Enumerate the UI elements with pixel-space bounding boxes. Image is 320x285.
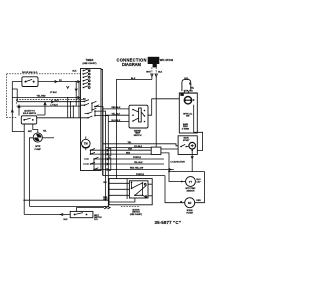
noise filter circle [185,198,195,208]
junction dot circle1 [181,181,183,183]
motor lead down with connectors [191,149,193,172]
label WTR TEMP SENSOR [186,188,197,192]
water temp switch mechanism [132,108,145,122]
belt switch S4 box [70,211,93,217]
wire VIO bus to connector [106,147,152,149]
timer contact row 6 [83,86,91,89]
belt switch label [94,215,102,221]
wire unbalance left terminal down [23,124,25,200]
wire RED bus [101,153,151,155]
svg-text:RED-YELLOW: RED-YELLOW [130,168,143,170]
svg-text:(SEE CHART): (SEE CHART) [83,62,97,65]
motor switch label [130,209,142,216]
wire YEL bus to motor [103,144,179,146]
svg-text:PUMP: PUMP [35,149,42,151]
timer mid contact group [81,100,102,119]
mid vertical bus 2 [105,115,107,200]
wire pump right stub [43,137,54,139]
connector on PK wire [55,80,58,83]
connector bracket upper [107,148,111,156]
timer contact row 5 [83,83,91,86]
wire neutral vertical [155,77,157,147]
svg-text:YEL-BLK: YEL-BLK [134,162,143,164]
timer motor TM [82,137,91,151]
label NOISE FILTER [186,210,193,214]
label block inside box [182,123,190,130]
svg-text:BLU-BLK: BLU-BLK [112,120,121,122]
svg-text:RED-BLK: RED-BLK [112,107,121,109]
box1 top edge emphasis [179,92,197,94]
svg-text:WHT: WHT [146,72,151,74]
riser wire 5 [78,82,80,118]
svg-text:BLK: BLK [73,70,78,72]
pressure dome protector [184,97,195,104]
power cord lead N (dashed) [155,67,157,73]
timer contact row 3 [83,76,91,79]
junction dot circle2 [180,201,182,203]
title CONNECTION DIAGRAM [117,57,147,66]
junction dots bottom [105,200,109,208]
junction dot [23,199,25,201]
wire BLU-BLK into water temp switch [108,121,129,123]
console dashed stub [7,100,17,118]
svg-text:17 BLK: 17 BLK [50,92,57,94]
svg-text:BLK: BLK [64,219,69,221]
label BLU CAP [197,179,202,183]
svg-text:BLK: BLK [158,72,163,74]
water valve solenoid dome [182,80,191,92]
connector out wires [161,149,186,182]
svg-text:SOL: SOL [184,78,189,80]
connector arrow right [104,206,110,209]
svg-text:YEL-RED: YEL-RED [37,96,47,98]
svg-text:BLU: BLU [55,100,60,102]
timer lower contact group [83,149,101,171]
bottom bus wire 1 [24,199,109,201]
junction dot [168,171,170,173]
mid vertical bus 3 [107,122,109,207]
motor switch input wires [109,183,129,195]
svg-text:CAP: CAP [197,180,202,183]
wire PK door switch to timer [38,81,81,83]
belt switch left wire BLK [24,214,70,216]
svg-text:TM: TM [84,141,88,145]
wire water temp out VIO [148,99,179,115]
inner junction [109,179,135,202]
wire BLK from L1 to bus [116,80,151,179]
door switch contacts [25,79,35,82]
wire circle2 left [165,176,185,203]
svg-text:(SEE CHART): (SEE CHART) [130,213,142,216]
svg-text:PURPLE: PURPLE [136,174,145,176]
svg-text:LT BLU: LT BLU [51,104,59,106]
motor start box [178,136,197,155]
riser connector marks [67,86,78,91]
svg-text:HOLD SWITCH: HOLD SWITCH [23,113,37,115]
console dashed enclosure left [6,74,8,118]
wire door switch left down [12,82,24,132]
svg-text:YEL-BLK: YEL-BLK [112,113,121,115]
connector arrows at timer inlet [77,80,80,99]
svg-text:NF: NF [188,201,192,205]
riser wire 1 [67,98,69,118]
wire riser with arrow left [18,105,20,116]
svg-text:GRN: GRN [196,200,201,202]
timer contact row 2 [83,72,91,75]
svg-text:35-5877 “C”: 35-5877 “C” [155,220,182,225]
pump label [35,146,42,151]
riser wire 4 [75,82,77,107]
wire PURPLE bus [101,158,164,160]
extend left vertical to belt wire [23,200,25,214]
start switch contacts [180,144,188,147]
connector bracket lower [107,158,111,171]
unbalance switch contacts [23,118,33,121]
wire LT BLU row to timer [17,105,81,107]
svg-text:VIO-BLK: VIO-BLK [134,146,143,148]
console dashed enclosure bottom [17,99,85,101]
lead N connector arrow [155,74,157,77]
unbalance switch S2 box [21,116,36,124]
svg-text:TIMER: TIMER [86,59,94,62]
solenoid leads [184,91,188,93]
timer exits to mid verticals [101,107,108,122]
wire YEL-RED to timer [12,97,80,99]
water level control box [179,93,197,133]
motor switch cross wiring [131,182,147,198]
svg-text:4 CAPACITOR: 4 CAPACITOR [170,160,185,163]
wire RED-YELLOW bus [101,169,174,171]
svg-text:RED: RED [126,152,131,154]
svg-text:DIAGRAM: DIAGRAM [122,62,142,67]
svg-text:WTR: WTR [35,146,41,148]
junction dots [67,81,80,107]
inner wire in box [193,105,195,133]
power cord plug P1 [148,57,160,68]
motor switch right exits [148,184,152,196]
riser wire 3 [72,106,74,118]
unbalance switch label [23,110,37,115]
svg-text:4 TERM: 4 TERM [182,127,190,130]
water temp switch label [134,129,142,137]
wire from timer top to mid vertical [101,69,103,175]
connector on BLU row [51,100,54,103]
wire box right exit [194,132,203,150]
water temp switch S3 box [129,105,148,128]
water temp sensor circle [186,177,196,187]
neutral wire to right circles [169,172,205,203]
timer T1 box [81,69,102,171]
svg-text:WR.4P132: WR.4P132 [160,58,174,62]
svg-text:VIO: VIO [103,182,107,184]
svg-text:SW: SW [186,116,189,118]
wire PURPLE long bus [103,175,165,177]
motor switch outer box [109,179,152,205]
motor connector block [151,147,161,154]
power cord lead L1 (dashed) [151,67,153,73]
belt switch contacts [74,213,88,216]
door switch S1 box [22,77,38,87]
riser wire 2 [70,102,72,118]
wire riser with arrow right [37,102,47,115]
timer contact row 1 [83,69,91,72]
svg-text:YT: YT [189,180,193,184]
wire unbalance to timer [37,117,81,119]
label RED-WHT [103,197,108,201]
terminal block mark [180,93,183,96]
dashed mark below motor switch [121,205,140,207]
wire pump top [33,124,38,133]
svg-text:PK: PK [59,80,62,82]
label WTR LVL SW [183,113,193,117]
svg-text:PURPLE: PURPLE [133,157,142,159]
svg-text:DOOR SW. N.C.: DOOR SW. N.C. [22,72,38,74]
svg-text:TAN: TAN [128,147,132,150]
lead L1 connector arrow [151,74,153,80]
bottom bus wire 2 [30,205,109,207]
wire TAN bus [101,149,151,151]
wire YEL-BLK bus [101,163,164,165]
arrow on RED-YELLOW [169,168,172,171]
svg-text:FILTER: FILTER [186,212,193,214]
timer T1 (SEE CHART) label [83,59,97,65]
svg-text:BLK: BLK [131,78,136,80]
pump motor M1 [33,133,43,143]
svg-text:START: START [183,139,190,142]
wire pump left down [30,138,34,207]
svg-text:SENSOR: SENSOR [187,190,196,192]
motor switch inner box [129,181,148,198]
console dashed enclosure top [7,73,85,75]
svg-text:N.O.: N.O. [94,219,98,221]
wire RED-BLK into water temp switch [103,108,129,110]
svg-text:SWITCH: SWITCH [134,135,142,137]
mid vertical bus 1 [102,109,104,176]
start winding ring [189,142,196,149]
wire YEL-BLK into water temp switch [106,114,130,116]
belt switch top wire [77,208,105,212]
arrow on belt wire [61,213,64,216]
wire BLU row to timer [17,101,80,103]
timer contact row 4 [83,79,91,82]
connector arrow on left wire [11,110,13,113]
